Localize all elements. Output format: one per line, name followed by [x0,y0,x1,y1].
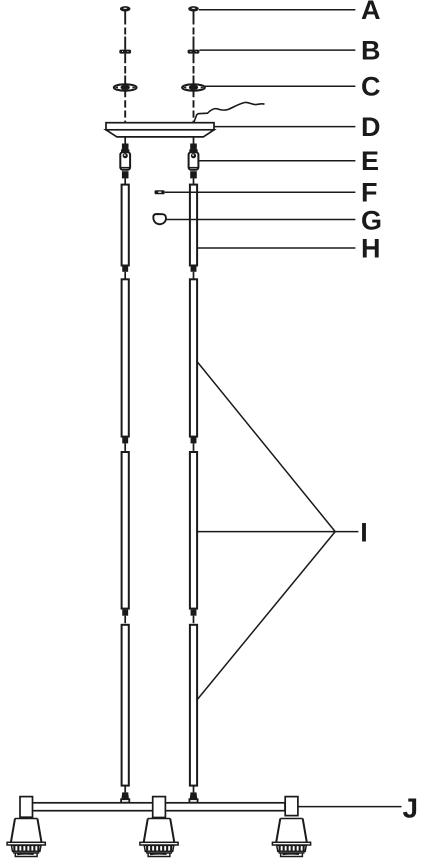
leader line H [197,247,355,249]
rod segment 3 left [122,452,129,609]
rod joint 2 left [122,437,128,451]
rod joint 3 left [122,610,128,624]
lock washer C left [114,84,137,123]
rod segment 2 right [190,279,197,436]
canopy D [106,123,214,137]
lamp stem 3 [285,797,298,816]
rod segment 1 right [190,185,197,266]
leader line A [199,9,356,11]
rod segment 4 right [190,625,197,786]
mounting screw A right [188,6,199,50]
rod segment 1 left [122,185,129,266]
rod foot right [189,786,197,803]
leader lines I [197,361,359,700]
leader line B [199,49,355,51]
svg-text:E: E [361,146,379,176]
lamp head 2 [140,819,178,857]
bottom bar J [32,803,286,811]
svg-text:B: B [361,35,381,65]
rod joint 2 right [191,437,197,451]
leader line J [298,806,401,808]
loop G [153,214,166,224]
leader line D [214,126,355,128]
lamp head 3 [272,819,310,857]
leader line G [166,219,355,221]
socket E right [189,138,199,185]
svg-text:I: I [360,517,368,547]
lock washer C right [182,84,205,123]
set screw F [155,190,165,194]
rod foot left [121,786,129,803]
socket E left [120,138,130,185]
hex nut B left [119,50,131,85]
leader line F [165,191,356,193]
svg-text:J: J [403,793,419,824]
rod joint 1 left [122,266,128,280]
leader line E [199,160,356,162]
lamp stem 2 [153,797,166,818]
lamp stem 1 [20,797,33,818]
power wire [194,102,265,122]
svg-text:F: F [361,178,378,208]
svg-text:H: H [361,234,381,264]
rod joint 1 right [191,266,197,280]
hex nut B right [188,50,200,85]
svg-text:D: D [361,112,381,142]
rod segment 3 right [190,452,197,609]
leader line C [205,85,356,87]
mounting screw A left [120,6,131,50]
rod joint 3 right [191,610,197,624]
svg-text:C: C [361,72,381,102]
lamp head 1 [7,819,45,857]
rod segment 2 left [122,279,129,436]
svg-text:A: A [361,0,381,25]
rod segment 4 left [122,625,129,786]
svg-text:G: G [361,205,382,235]
